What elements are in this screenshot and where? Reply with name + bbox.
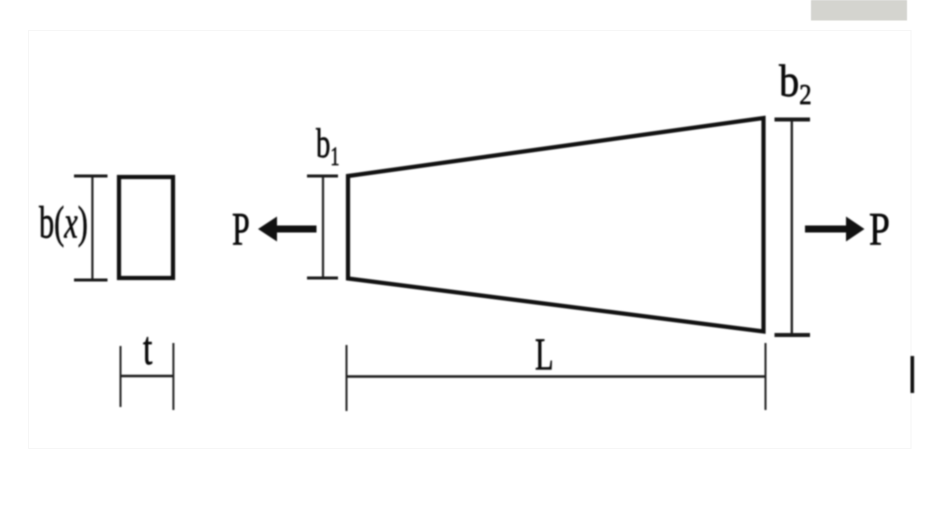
svg-text:t: t bbox=[143, 321, 153, 374]
label b1 bbox=[316, 120, 339, 171]
force arrow right bbox=[805, 217, 865, 242]
label L bbox=[535, 329, 554, 380]
gray toolbar fragment top-right bbox=[811, 0, 907, 21]
dimension b1 bottom tick bbox=[307, 277, 338, 280]
svg-text:P: P bbox=[232, 202, 250, 255]
dimension b2 vertical line bbox=[791, 120, 793, 335]
dimension b(x) top tick bbox=[74, 175, 108, 178]
dimension L right tick bbox=[765, 343, 767, 410]
label P right bbox=[869, 204, 890, 256]
dimension b2 top tick bbox=[775, 118, 811, 122]
dimension b(x) bottom tick bbox=[74, 279, 108, 282]
dimension L horizontal line bbox=[347, 375, 766, 378]
svg-text:b(x): b(x) bbox=[39, 197, 88, 248]
force arrow left bbox=[258, 217, 317, 242]
dimension b2 bottom tick bbox=[775, 333, 811, 337]
dimension t right tick bbox=[172, 343, 174, 410]
label b2 bbox=[779, 56, 812, 111]
dimension b1 top tick bbox=[307, 175, 338, 178]
svg-text:P: P bbox=[869, 204, 890, 256]
dimension b1 vertical line bbox=[322, 176, 324, 278]
label t bbox=[143, 321, 153, 374]
label b(x) bbox=[39, 197, 88, 248]
dimension L left tick bbox=[346, 345, 348, 411]
label P left bbox=[232, 202, 250, 255]
text cursor bbox=[911, 356, 915, 393]
dimension t left tick bbox=[120, 346, 122, 407]
faint selection box bbox=[29, 31, 912, 449]
cross-section rectangle bbox=[119, 177, 173, 278]
dimension b(x) vertical line bbox=[91, 176, 93, 280]
svg-text:L: L bbox=[535, 329, 554, 380]
dimension t horizontal line bbox=[121, 375, 174, 378]
tapered bar bbox=[348, 118, 764, 332]
